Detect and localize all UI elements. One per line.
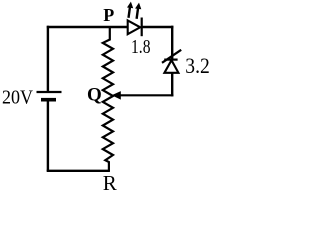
wire wiper (right rail to potentiometer tap at Q): [120, 94, 174, 96]
zener diode 3.2: [162, 50, 181, 73]
battery 20V: [37, 92, 62, 100]
svg-text:P: P: [103, 5, 114, 25]
svg-text:20V: 20V: [2, 87, 33, 109]
LED D1: [128, 18, 142, 37]
wire right (corner down to zener cathode): [171, 26, 173, 60]
wire top right (LED cathode to right rail): [142, 26, 174, 29]
svg-text:Q: Q: [87, 85, 102, 106]
wire top (node P rail): [47, 26, 128, 29]
LED emission arrow 2: [135, 3, 141, 19]
svg-text:3.2: 3.2: [185, 53, 210, 78]
LED emission arrow 1: [127, 2, 133, 18]
wire bottom (to node R): [47, 170, 110, 172]
wire right lower (zener anode down to wiper corner): [171, 73, 173, 97]
potentiometer resistor P-R: [103, 27, 113, 171]
wiper arrowhead at node Q: [112, 91, 121, 100]
wire left (top corner down to battery +): [47, 26, 49, 92]
svg-text:1.8: 1.8: [131, 36, 151, 58]
wire left lower (battery - down to bottom corner): [47, 100, 49, 172]
svg-text:R: R: [103, 171, 117, 194]
